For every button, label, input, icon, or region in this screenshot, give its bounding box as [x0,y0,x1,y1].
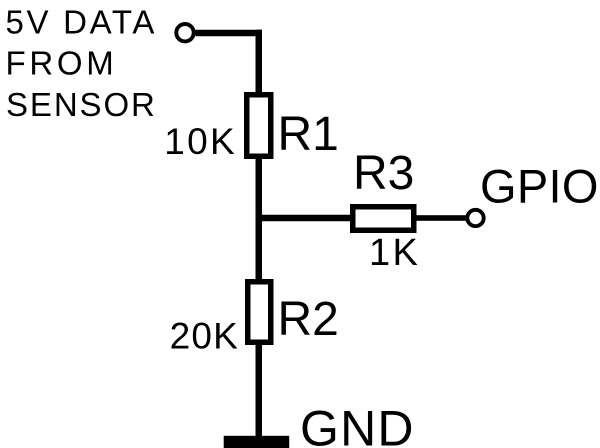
svg-text:1K: 1K [369,232,420,274]
wire input vertical to R1 [256,30,263,96]
terminal input 5V [176,24,193,41]
svg-text:GPIO: GPIO [480,160,599,213]
wire input horizontal [196,30,263,37]
svg-text:5V DATA: 5V DATA [6,4,158,41]
ground [224,436,290,448]
svg-text:20K: 20K [170,316,239,357]
svg-text:R3: R3 [353,147,414,200]
svg-text:R1: R1 [278,108,339,161]
svg-text:SENSOR: SENSOR [6,86,157,123]
svg-text:FROM: FROM [6,45,118,82]
wire divider node to R3 [256,215,354,222]
svg-text:R2: R2 [278,293,339,346]
svg-text:10K: 10K [164,121,237,162]
terminal GPIO [467,210,483,226]
svg-text:GND: GND [300,401,415,448]
resistor R3 [353,207,414,231]
wire R1 to R2 divider node [256,155,263,282]
resistor R1 [247,95,271,157]
resistor R2 [248,282,271,343]
wire R2 to ground [256,342,263,440]
wire R3 to GPIO terminal [413,215,467,221]
node 5V DATA FROM SENSOR net label [6,4,158,124]
